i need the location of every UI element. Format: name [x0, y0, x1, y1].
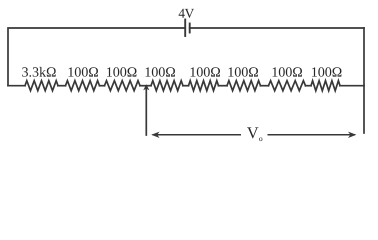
wire segment before R1 3.3k	[8, 85, 25, 87]
value label 100Ohm R7	[273, 67, 303, 76]
arrowhead Vo right	[348, 132, 356, 138]
resistor R5 100	[189, 81, 219, 91]
label 4V for battery	[179, 9, 195, 18]
wire segment before R7 100	[261, 85, 269, 87]
wire right vertical	[363, 28, 365, 133]
battery V1 long plate	[184, 20, 186, 37]
value label 100Ohm R3	[107, 67, 137, 76]
label Vo	[247, 127, 259, 138]
wire segment before R2 100	[58, 85, 66, 87]
value label 3.3kOhm R1	[22, 67, 56, 77]
wire tap vertical at node A	[145, 89, 147, 136]
wire segment before R6 100	[219, 85, 228, 87]
wire segment before R5 100	[183, 85, 189, 87]
wire Vo right arrow shaft	[268, 134, 356, 136]
wire top-left from battery to left corner and down	[8, 28, 185, 86]
value label 100Ohm R4	[146, 67, 176, 76]
resistor R8 100	[311, 81, 340, 91]
resistor R6 100	[227, 81, 261, 91]
resistor R3 100	[105, 81, 141, 91]
value label 100Ohm R2	[69, 67, 99, 76]
resistor R1 3.3k	[25, 81, 58, 91]
battery V1 short plate	[189, 24, 191, 33]
arrowhead Vo left	[151, 132, 159, 138]
value label 100Ohm R6	[229, 67, 259, 76]
wire top-right from battery toward right corner	[190, 27, 364, 29]
value label 100Ohm R5	[191, 67, 221, 76]
wire from R8 to right vertical	[340, 85, 364, 87]
wire segment before R4 100	[140, 85, 151, 87]
wire segment before R8 100	[306, 85, 312, 87]
resistor R7 100	[269, 81, 306, 91]
value label 100Ohm R8	[312, 67, 342, 76]
resistor R4 100	[151, 81, 183, 91]
wire segment before R3 100	[100, 85, 105, 87]
arrowhead of tap pointing up to node A	[143, 84, 149, 90]
wire Vo left arrow shaft	[153, 134, 242, 136]
resistor R2 100	[66, 81, 100, 91]
